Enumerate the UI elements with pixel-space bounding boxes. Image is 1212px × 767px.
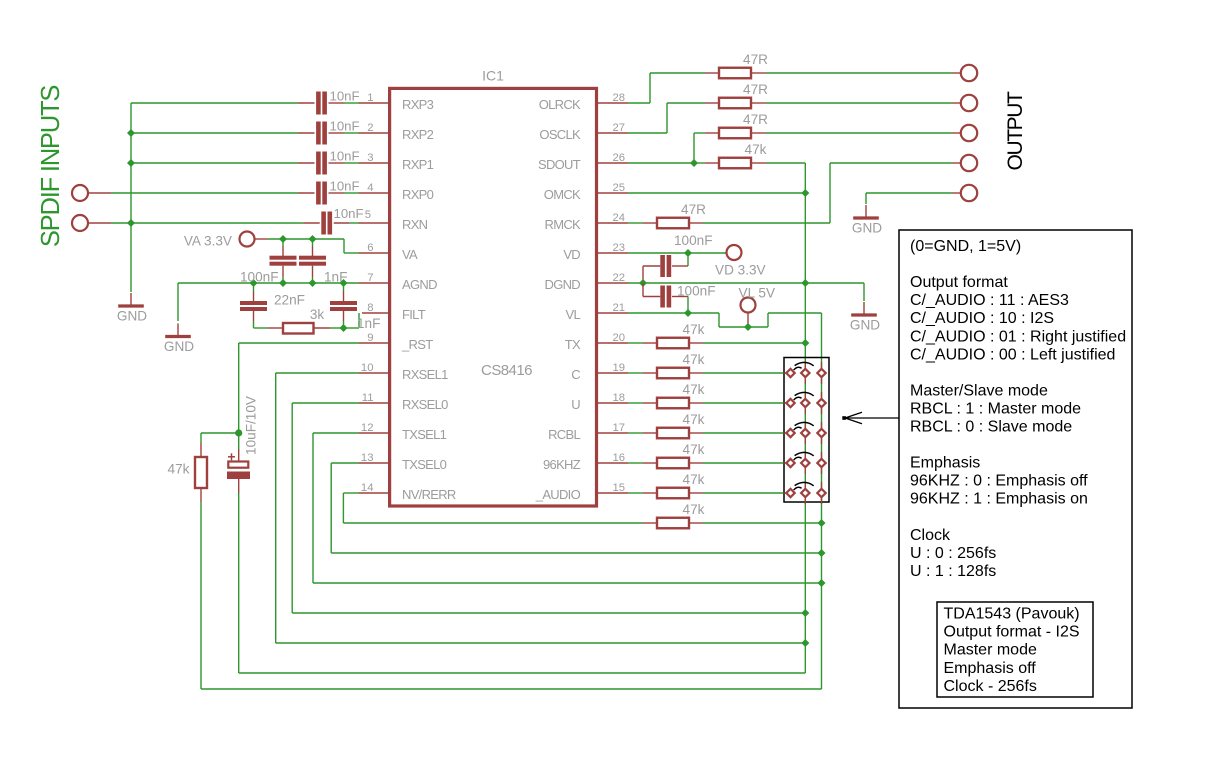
- svg-text:DGND: DGND: [545, 277, 581, 292]
- svg-text:_RST: _RST: [401, 337, 433, 352]
- svg-text:3: 3: [367, 152, 373, 164]
- svg-text:10nF: 10nF: [330, 149, 360, 164]
- svg-text:14: 14: [361, 482, 374, 494]
- svg-text:96KHZ : 1 : Emphasis on: 96KHZ : 1 : Emphasis on: [910, 491, 1088, 508]
- svg-text:47R: 47R: [681, 202, 706, 217]
- svg-text:100nF: 100nF: [240, 270, 279, 285]
- svg-text:47R: 47R: [743, 52, 768, 67]
- svg-text:Master mode: Master mode: [944, 642, 1037, 659]
- svg-text:25: 25: [613, 182, 626, 194]
- svg-text:IC1: IC1: [482, 68, 504, 84]
- svg-text:C/_AUDIO : 00 : Left justified: C/_AUDIO : 00 : Left justified: [910, 346, 1115, 363]
- svg-text:RBCL : 1 : Master mode: RBCL : 1 : Master mode: [910, 400, 1081, 417]
- svg-text:4: 4: [367, 182, 373, 194]
- svg-text:C: C: [571, 367, 580, 382]
- svg-text:6: 6: [367, 242, 373, 254]
- svg-text:47R: 47R: [743, 112, 768, 127]
- svg-text:10nF: 10nF: [330, 119, 360, 134]
- svg-text:_AUDIO: _AUDIO: [535, 487, 581, 502]
- svg-text:15: 15: [613, 482, 626, 494]
- svg-text:TXSEL1: TXSEL1: [402, 427, 447, 442]
- svg-text:RMCK: RMCK: [545, 217, 582, 232]
- svg-text:U : 1 : 128fs: U : 1 : 128fs: [910, 563, 996, 580]
- svg-text:23: 23: [613, 242, 626, 254]
- svg-text:20: 20: [613, 332, 626, 344]
- svg-text:47k: 47k: [683, 412, 705, 427]
- svg-text:24: 24: [613, 212, 626, 224]
- svg-text:47k: 47k: [683, 502, 705, 517]
- svg-text:13: 13: [361, 452, 374, 464]
- svg-text:(0=GND, 1=5V): (0=GND, 1=5V): [910, 238, 1021, 255]
- svg-text:RXSEL1: RXSEL1: [402, 367, 448, 382]
- svg-text:TX: TX: [565, 337, 581, 352]
- svg-text:47k: 47k: [683, 352, 705, 367]
- svg-text:16: 16: [613, 452, 626, 464]
- svg-text:Clock: Clock: [910, 527, 951, 544]
- svg-text:47k: 47k: [683, 322, 705, 337]
- svg-text:96KHZ : 0 : Emphasis off: 96KHZ : 0 : Emphasis off: [910, 473, 1088, 490]
- svg-text:47R: 47R: [743, 82, 768, 97]
- svg-text:100nF: 100nF: [677, 284, 716, 299]
- svg-text:Emphasis off: Emphasis off: [944, 660, 1037, 677]
- svg-text:C/_AUDIO : 01 : Right justifie: C/_AUDIO : 01 : Right justified: [910, 328, 1126, 345]
- svg-text:GND: GND: [852, 221, 882, 236]
- svg-text:CS8416: CS8416: [481, 362, 532, 379]
- svg-text:Clock - 256fs: Clock - 256fs: [944, 678, 1037, 695]
- svg-text:C/_AUDIO : 11 : AES3: C/_AUDIO : 11 : AES3: [910, 292, 1069, 309]
- svg-text:19: 19: [613, 362, 626, 374]
- svg-text:47k: 47k: [683, 442, 705, 457]
- svg-text:RXP3: RXP3: [402, 97, 434, 112]
- svg-text:VL: VL: [565, 307, 580, 322]
- svg-text:VD: VD: [563, 247, 580, 262]
- svg-text:SDOUT: SDOUT: [538, 157, 581, 172]
- svg-text:47k: 47k: [683, 382, 705, 397]
- svg-text:TDA1543 (Pavouk): TDA1543 (Pavouk): [944, 606, 1080, 623]
- svg-text:1nF: 1nF: [324, 270, 347, 285]
- svg-text:22: 22: [613, 272, 626, 284]
- svg-text:OSCLK: OSCLK: [539, 127, 581, 142]
- svg-text:RCBL: RCBL: [548, 427, 580, 442]
- svg-text:10: 10: [361, 362, 374, 374]
- svg-text:RXP0: RXP0: [402, 187, 434, 202]
- svg-text:12: 12: [361, 422, 374, 434]
- svg-text:47k: 47k: [745, 142, 767, 157]
- svg-text:U : 0 : 256fs: U : 0 : 256fs: [910, 545, 996, 562]
- svg-text:SPDIF INPUTS: SPDIF INPUTS: [37, 86, 65, 247]
- svg-text:100nF: 100nF: [674, 233, 713, 248]
- svg-text:OMCK: OMCK: [544, 187, 581, 202]
- svg-text:10nF: 10nF: [334, 206, 364, 221]
- svg-text:VD 3.3V: VD 3.3V: [715, 263, 766, 278]
- svg-text:RXSEL0: RXSEL0: [402, 397, 448, 412]
- svg-text:OLRCK: OLRCK: [539, 97, 581, 112]
- svg-text:28: 28: [613, 92, 626, 104]
- svg-text:Emphasis: Emphasis: [910, 455, 980, 472]
- svg-text:VA 3.3V: VA 3.3V: [184, 234, 232, 249]
- svg-text:FILT: FILT: [402, 307, 426, 322]
- svg-text:27: 27: [613, 122, 626, 134]
- svg-text:Master/Slave mode: Master/Slave mode: [910, 382, 1048, 399]
- svg-text:47k: 47k: [683, 472, 705, 487]
- svg-text:RBCL : 0 : Slave mode: RBCL : 0 : Slave mode: [910, 419, 1072, 436]
- svg-text:1nF: 1nF: [357, 316, 380, 331]
- svg-text:U: U: [571, 397, 580, 412]
- svg-text:AGND: AGND: [402, 277, 437, 292]
- svg-text:22nF: 22nF: [274, 293, 305, 308]
- svg-text:GND: GND: [117, 309, 147, 324]
- svg-text:3k: 3k: [310, 307, 325, 322]
- svg-text:RXP2: RXP2: [402, 127, 434, 142]
- svg-text:C/_AUDIO : 10 : I2S: C/_AUDIO : 10 : I2S: [910, 310, 1054, 327]
- svg-text:11: 11: [362, 392, 374, 404]
- svg-text:10nF: 10nF: [330, 89, 360, 104]
- svg-text:17: 17: [613, 422, 626, 434]
- svg-text:7: 7: [367, 272, 373, 284]
- svg-text:10uF/10V: 10uF/10V: [244, 396, 259, 455]
- svg-text:96KHZ: 96KHZ: [543, 457, 581, 472]
- svg-text:GND: GND: [850, 318, 880, 333]
- svg-text:OUTPUT: OUTPUT: [1004, 91, 1027, 171]
- svg-text:2: 2: [367, 122, 373, 134]
- svg-text:VA: VA: [402, 247, 418, 262]
- svg-text:26: 26: [613, 152, 626, 164]
- svg-text:Output format: Output format: [910, 274, 1008, 291]
- svg-text:47k: 47k: [168, 462, 190, 477]
- svg-text:10nF: 10nF: [330, 179, 360, 194]
- svg-text:21: 21: [613, 302, 626, 314]
- svg-text:1: 1: [367, 92, 373, 104]
- svg-text:RXP1: RXP1: [402, 157, 434, 172]
- svg-text:18: 18: [613, 392, 626, 404]
- svg-text:RXN: RXN: [402, 217, 428, 232]
- svg-text:VL 5V: VL 5V: [739, 286, 776, 301]
- svg-text:5: 5: [365, 209, 371, 221]
- svg-text:Output format - I2S: Output format - I2S: [944, 624, 1080, 641]
- svg-text:9: 9: [367, 332, 373, 344]
- svg-text:GND: GND: [164, 339, 194, 354]
- svg-text:TXSEL0: TXSEL0: [402, 457, 447, 472]
- svg-text:8: 8: [367, 302, 373, 314]
- svg-text:NV/RERR: NV/RERR: [402, 487, 456, 502]
